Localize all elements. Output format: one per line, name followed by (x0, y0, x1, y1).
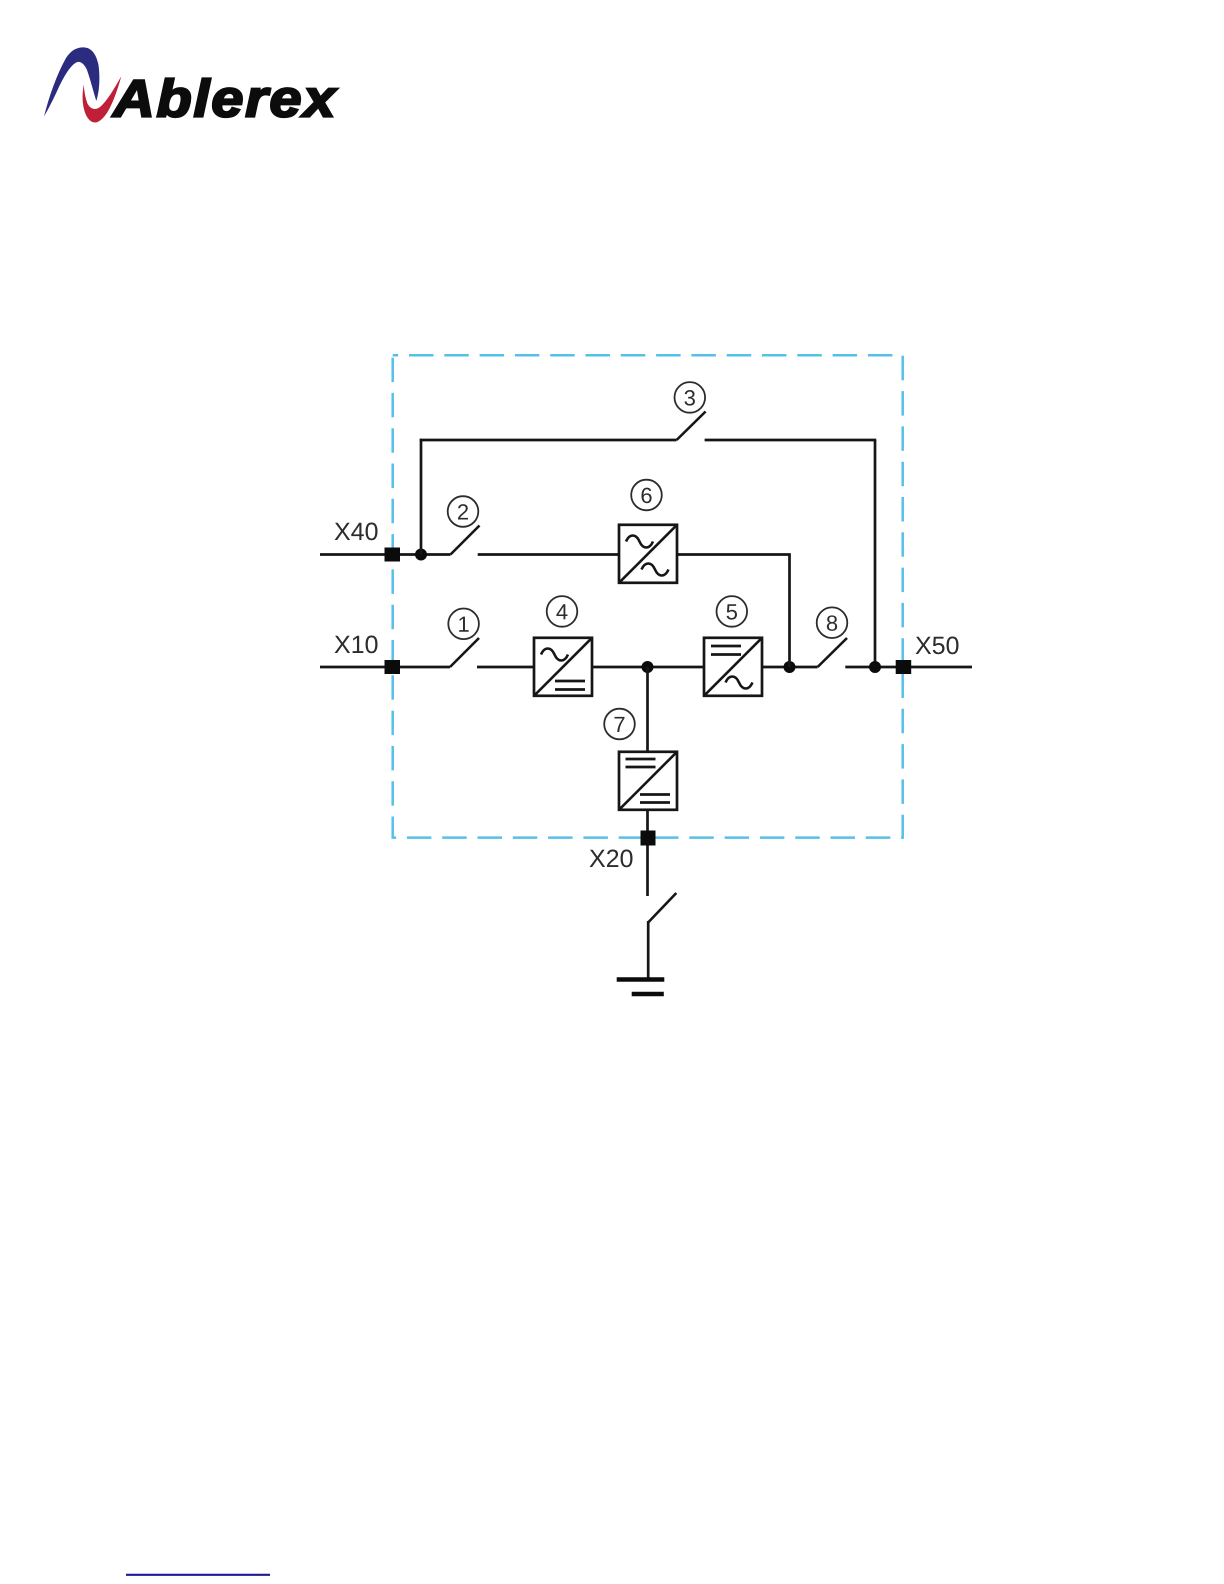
Ablerex logo red swoosh (83, 76, 122, 122)
wire battery switch to ground (647, 921, 650, 979)
wire bypass top left (420, 439, 677, 442)
node junction converter6 output (784, 661, 796, 673)
switch 1 blade (450, 638, 479, 667)
wire charger7 to X20 (646, 810, 649, 896)
converter U6 (AC/AC) (619, 525, 677, 583)
wire switch8 to X50 (845, 666, 972, 669)
bypass riser right (874, 440, 877, 667)
inverter U5 designator circle (717, 596, 748, 627)
switch 8 designator circle (817, 607, 848, 638)
riser converter6 output down (788, 555, 791, 668)
terminal X50 label (916, 637, 959, 655)
bypass riser left (420, 439, 423, 555)
Ablerex logo blue swoosh (44, 47, 99, 116)
terminal X50 square (896, 660, 912, 674)
rectifier U4 (AC/DC) (534, 638, 592, 696)
footer rule (126, 1574, 270, 1576)
terminal X40 label (335, 523, 378, 541)
switch 2 blade (451, 526, 480, 555)
terminal X20 square (641, 831, 656, 846)
inverter U5 (DC/AC) (704, 638, 762, 696)
converter U6 designator circle (631, 480, 662, 511)
wire converter6 output (677, 553, 791, 556)
wire X10 input (320, 666, 450, 669)
wire inverter5 to switch8 (762, 666, 818, 669)
terminal X20 label (590, 850, 633, 868)
charger U7 designator circle (604, 709, 635, 740)
switch 3 blade (677, 412, 706, 441)
node junction on X40 line (415, 549, 427, 561)
wire switch2 to converter6 (478, 553, 619, 556)
wire battery tap down (646, 667, 649, 752)
ground (617, 980, 665, 995)
terminal X10 square (385, 660, 401, 674)
charger U7 (DC/DC) (619, 752, 677, 810)
wire bypass top right (705, 439, 877, 442)
node junction bypass output (869, 661, 881, 673)
node junction battery tap (642, 661, 654, 673)
switch 3 designator circle (675, 382, 706, 413)
switch 1 designator circle (448, 609, 479, 640)
rectifier U4 designator circle (547, 596, 578, 627)
wire rectifier4 to inverter5 (592, 666, 704, 669)
terminal X40 square (385, 548, 401, 562)
wire switch1 to rectifier4 (477, 666, 534, 669)
switch 2 designator circle (448, 496, 479, 527)
wire X40 input (320, 553, 451, 556)
switch 8 blade (818, 638, 847, 667)
terminal X10 label (335, 636, 378, 654)
Ablerex logo wordmark (112, 78, 338, 117)
UPS enclosure dashed boundary (393, 355, 903, 837)
battery switch blade (649, 893, 677, 922)
